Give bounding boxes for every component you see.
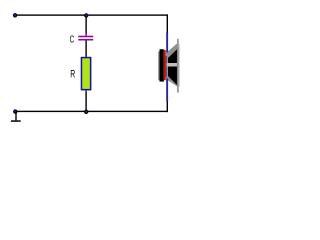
speaker LS1 magnet left face (158, 52, 159, 81)
ground bar (11, 120, 21, 122)
wire top horizontal (15, 14, 168, 15)
wire between capacitor and resistor (85, 41, 86, 56)
wire resistor to bottom (85, 92, 86, 112)
capacitor C top plate (78, 36, 93, 38)
ground stub wire (15, 112, 16, 121)
speaker LS1 cone surface (166, 43, 177, 86)
speaker LS1 cone axis band (167, 63, 177, 67)
resistor R body (81, 58, 90, 90)
node junction top (85, 14, 88, 17)
node junction bottom (85, 110, 88, 113)
speaker LS1 cone interior (168, 49, 177, 85)
wire right vertical upper black (167, 14, 168, 33)
wire right vertical lower black (167, 102, 168, 113)
capacitor C purple lead stub (85, 33, 87, 36)
svg-text:C: C (70, 34, 75, 45)
svg-text:R: R (70, 69, 75, 81)
wire speaker lead blue upper (166, 33, 168, 53)
speaker LS1 cone neck (166, 53, 170, 80)
speaker LS1 magnet body (160, 49, 164, 81)
speaker LS1 rim flange shading (177, 48, 178, 87)
speaker LS1 rim flange (177, 39, 179, 93)
wire speaker lead blue lower (166, 78, 168, 101)
node terminal bottom-left (14, 110, 17, 113)
resistor R blue lead stub top (85, 56, 87, 57)
node terminal top-left (13, 14, 16, 17)
capacitor C bottom plate (78, 39, 93, 41)
wire capacitor branch upper (85, 15, 86, 33)
wire bottom horizontal (15, 111, 168, 112)
speaker LS1 neck shadow (166, 56, 167, 77)
resistor R blue lead stub bottom (85, 90, 87, 92)
speaker LS1 voice coil red stripe (164, 50, 166, 80)
